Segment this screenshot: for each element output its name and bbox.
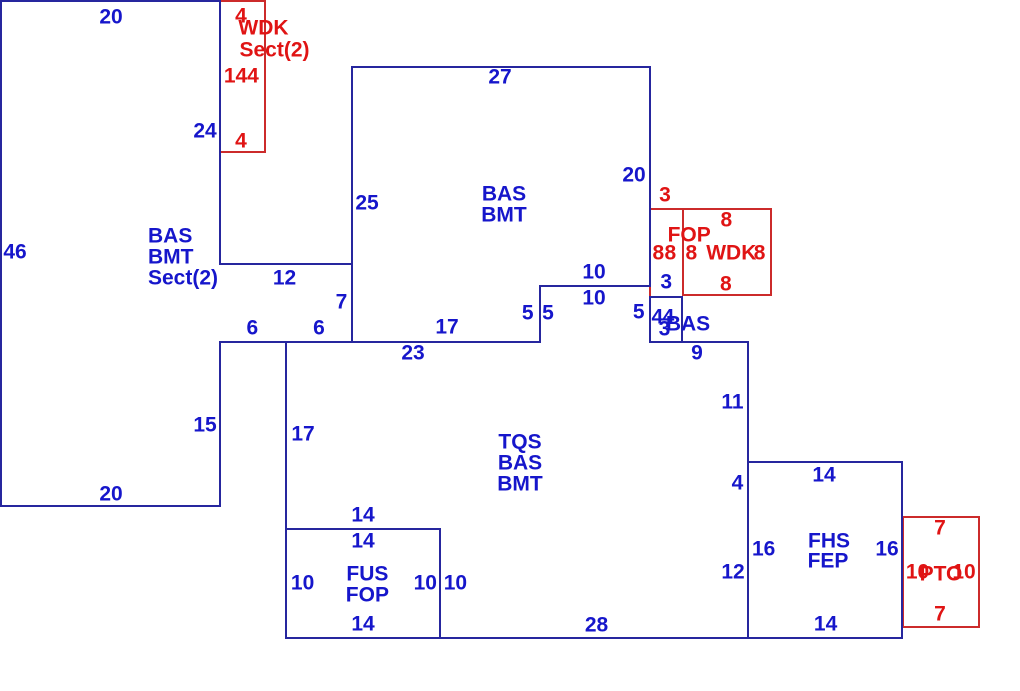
dim label 3 (FOP top) xyxy=(659,185,671,206)
dim label 12 (sect2 jog) xyxy=(273,268,296,289)
dim label 12 (TQS right lower) xyxy=(721,561,744,582)
dim label 14 (WDK sect2 left) xyxy=(224,66,247,87)
dim label 25 (BAS BMT left) xyxy=(355,192,378,213)
dim label 28 (TQS bottom) xyxy=(585,614,608,635)
dim label 7 (PTO bottom) xyxy=(934,603,946,624)
dim label 7 (sect2 right lower) xyxy=(336,291,348,312)
wire: BAS BMT right edge (20) xyxy=(649,66,651,287)
dim label WDK (WDK porch area) xyxy=(706,243,756,264)
wire: FOP porch left edge xyxy=(649,208,651,296)
dim label 6 (mid edge left) xyxy=(246,318,258,339)
dim label 20 (left section top) xyxy=(99,7,122,28)
dim label 8 (WDK porch bottom) xyxy=(720,274,732,295)
area label FHS FEP xyxy=(808,531,850,552)
dim label 14 (FHS bottom) xyxy=(814,614,837,635)
dim label 4 (WDK sect2 right) xyxy=(247,66,259,87)
dim label 14 (FUS bottom) xyxy=(351,614,374,635)
dim label 5 (notch left inner) xyxy=(542,302,554,323)
dim label 9 (TQS top right) xyxy=(691,342,703,363)
wire: TQS left edge (17,10) xyxy=(285,341,287,639)
wire: FOP/WDK divider xyxy=(682,208,684,296)
wire: notch vertical (5) xyxy=(539,285,541,343)
dim label 3 (small BAS bottom) xyxy=(659,319,671,340)
dim label 14 (FUS top outer) xyxy=(351,504,374,525)
wire: left section bottom edge (20) xyxy=(0,505,221,507)
WDK Sect(2) porch outline xyxy=(219,0,266,153)
dim label 16 (FHS left) xyxy=(752,539,775,560)
dim label WDK (WDK sect2 area line1) xyxy=(238,18,288,39)
dim label 4 (WDK sect2 top) xyxy=(235,5,247,26)
wire: notch horizontal (10) xyxy=(539,285,651,287)
wire: left section right edge upper (24) xyxy=(219,0,221,265)
dim label 4 (small BAS right) xyxy=(663,306,675,327)
wire: mid horizontal right (9) xyxy=(649,341,749,343)
wire: FUS FOP top edge (14) xyxy=(285,528,441,530)
dim label 8 (WDK porch left) xyxy=(685,242,697,263)
dim label 16 (FHS right) xyxy=(875,539,898,560)
wire: sect2 bottom jog horizontal (12) xyxy=(219,263,353,265)
dim label 10 (notch top) xyxy=(582,262,605,283)
wire: BAS BMT top edge (27) xyxy=(351,66,651,68)
wire: FUS FOP right edge (10) xyxy=(439,528,441,639)
wire: mid horizontal left (6 6 23) xyxy=(219,341,540,343)
dim label 27 (BAS BMT top) xyxy=(488,67,511,88)
dim label 8 (FOP left) xyxy=(653,242,665,263)
area label FUS FOP xyxy=(346,563,388,584)
wire: small BAS right edge (4) xyxy=(681,296,683,343)
dim label 5 (notch right) xyxy=(633,302,645,323)
dim label 10 (notch bottom) xyxy=(582,287,605,308)
dim label 10 (FUS right inner) xyxy=(414,573,437,594)
dim label 14 (FHS top) xyxy=(812,464,835,485)
area label BAS BMT Sect(2) xyxy=(148,225,192,246)
dim label 10 (PTO left) xyxy=(906,561,929,582)
dim label FOP (FOP area) xyxy=(668,225,711,246)
dim label 3 (small BAS top) xyxy=(660,272,672,293)
wire: left section left edge (46) xyxy=(0,0,2,507)
dim label 7 (PTO top) xyxy=(934,518,946,539)
dim label 15 (left section right lower) xyxy=(193,414,216,435)
area label TQS BAS BMT xyxy=(498,432,541,453)
dim label 10 (FUS right outer) xyxy=(444,573,467,594)
wire: BAS BMT left edge (25) xyxy=(351,66,353,343)
wire: left section right edge lower (15) xyxy=(219,341,221,507)
wire: WDK porch bottom edge xyxy=(682,294,772,296)
dim label 10 (PTO right) xyxy=(952,561,975,582)
dim label 4 (TQS right mid) xyxy=(732,473,744,494)
area label BAS BMT xyxy=(482,183,526,204)
dim label 14 (FUS top inner) xyxy=(351,530,374,551)
dim label 24 (left section right upper) xyxy=(193,120,216,141)
dim label BAS (small BAS area) xyxy=(666,314,710,335)
dim label 20 (BAS BMT right) xyxy=(622,164,645,185)
dim label 8 (FOP right) xyxy=(665,242,677,263)
wire: left section top edge (20) xyxy=(0,0,221,2)
dim label 4 (small BAS left) xyxy=(651,306,663,327)
dim label 17 (TQS left) xyxy=(291,423,314,444)
wire: WDK porch right edge xyxy=(770,208,772,296)
wire: small BAS left edge (4) xyxy=(649,296,651,343)
dim label 8 (WDK porch right) xyxy=(754,242,766,263)
dim label 11 (TQS right upper) xyxy=(721,392,743,413)
wire: bottom edge (14 28 14) xyxy=(285,637,903,639)
dim label 20 (left section bottom) xyxy=(99,483,122,504)
dim label PTO (PTO area) xyxy=(920,563,963,584)
dim label 6 (mid edge right) xyxy=(313,318,325,339)
dim label 17 (BAS BMT bottom) xyxy=(435,317,458,338)
wire: FOP/WDK porch top edge xyxy=(649,208,772,210)
dim label 4 (WDK sect2 bottom) xyxy=(235,130,247,151)
dim label 10 (FUS left) xyxy=(291,573,314,594)
dim label 5 (notch left outer) xyxy=(522,302,534,323)
dim label 46 (left section left) xyxy=(3,241,26,262)
dim label Sect(2) (WDK sect2 area line2) xyxy=(239,39,309,60)
dim label 23 (TQS top) xyxy=(401,343,424,364)
PTO patio outline xyxy=(902,516,980,628)
wire: FHS FEP right edge (16) xyxy=(901,461,903,639)
dim label 8 (WDK porch top) xyxy=(720,210,732,231)
wire: FHS FEP top edge (14) xyxy=(747,461,903,463)
wire: small BAS top edge (3) xyxy=(649,296,683,298)
wire: TQS right edge (11,4,12) xyxy=(747,341,749,639)
